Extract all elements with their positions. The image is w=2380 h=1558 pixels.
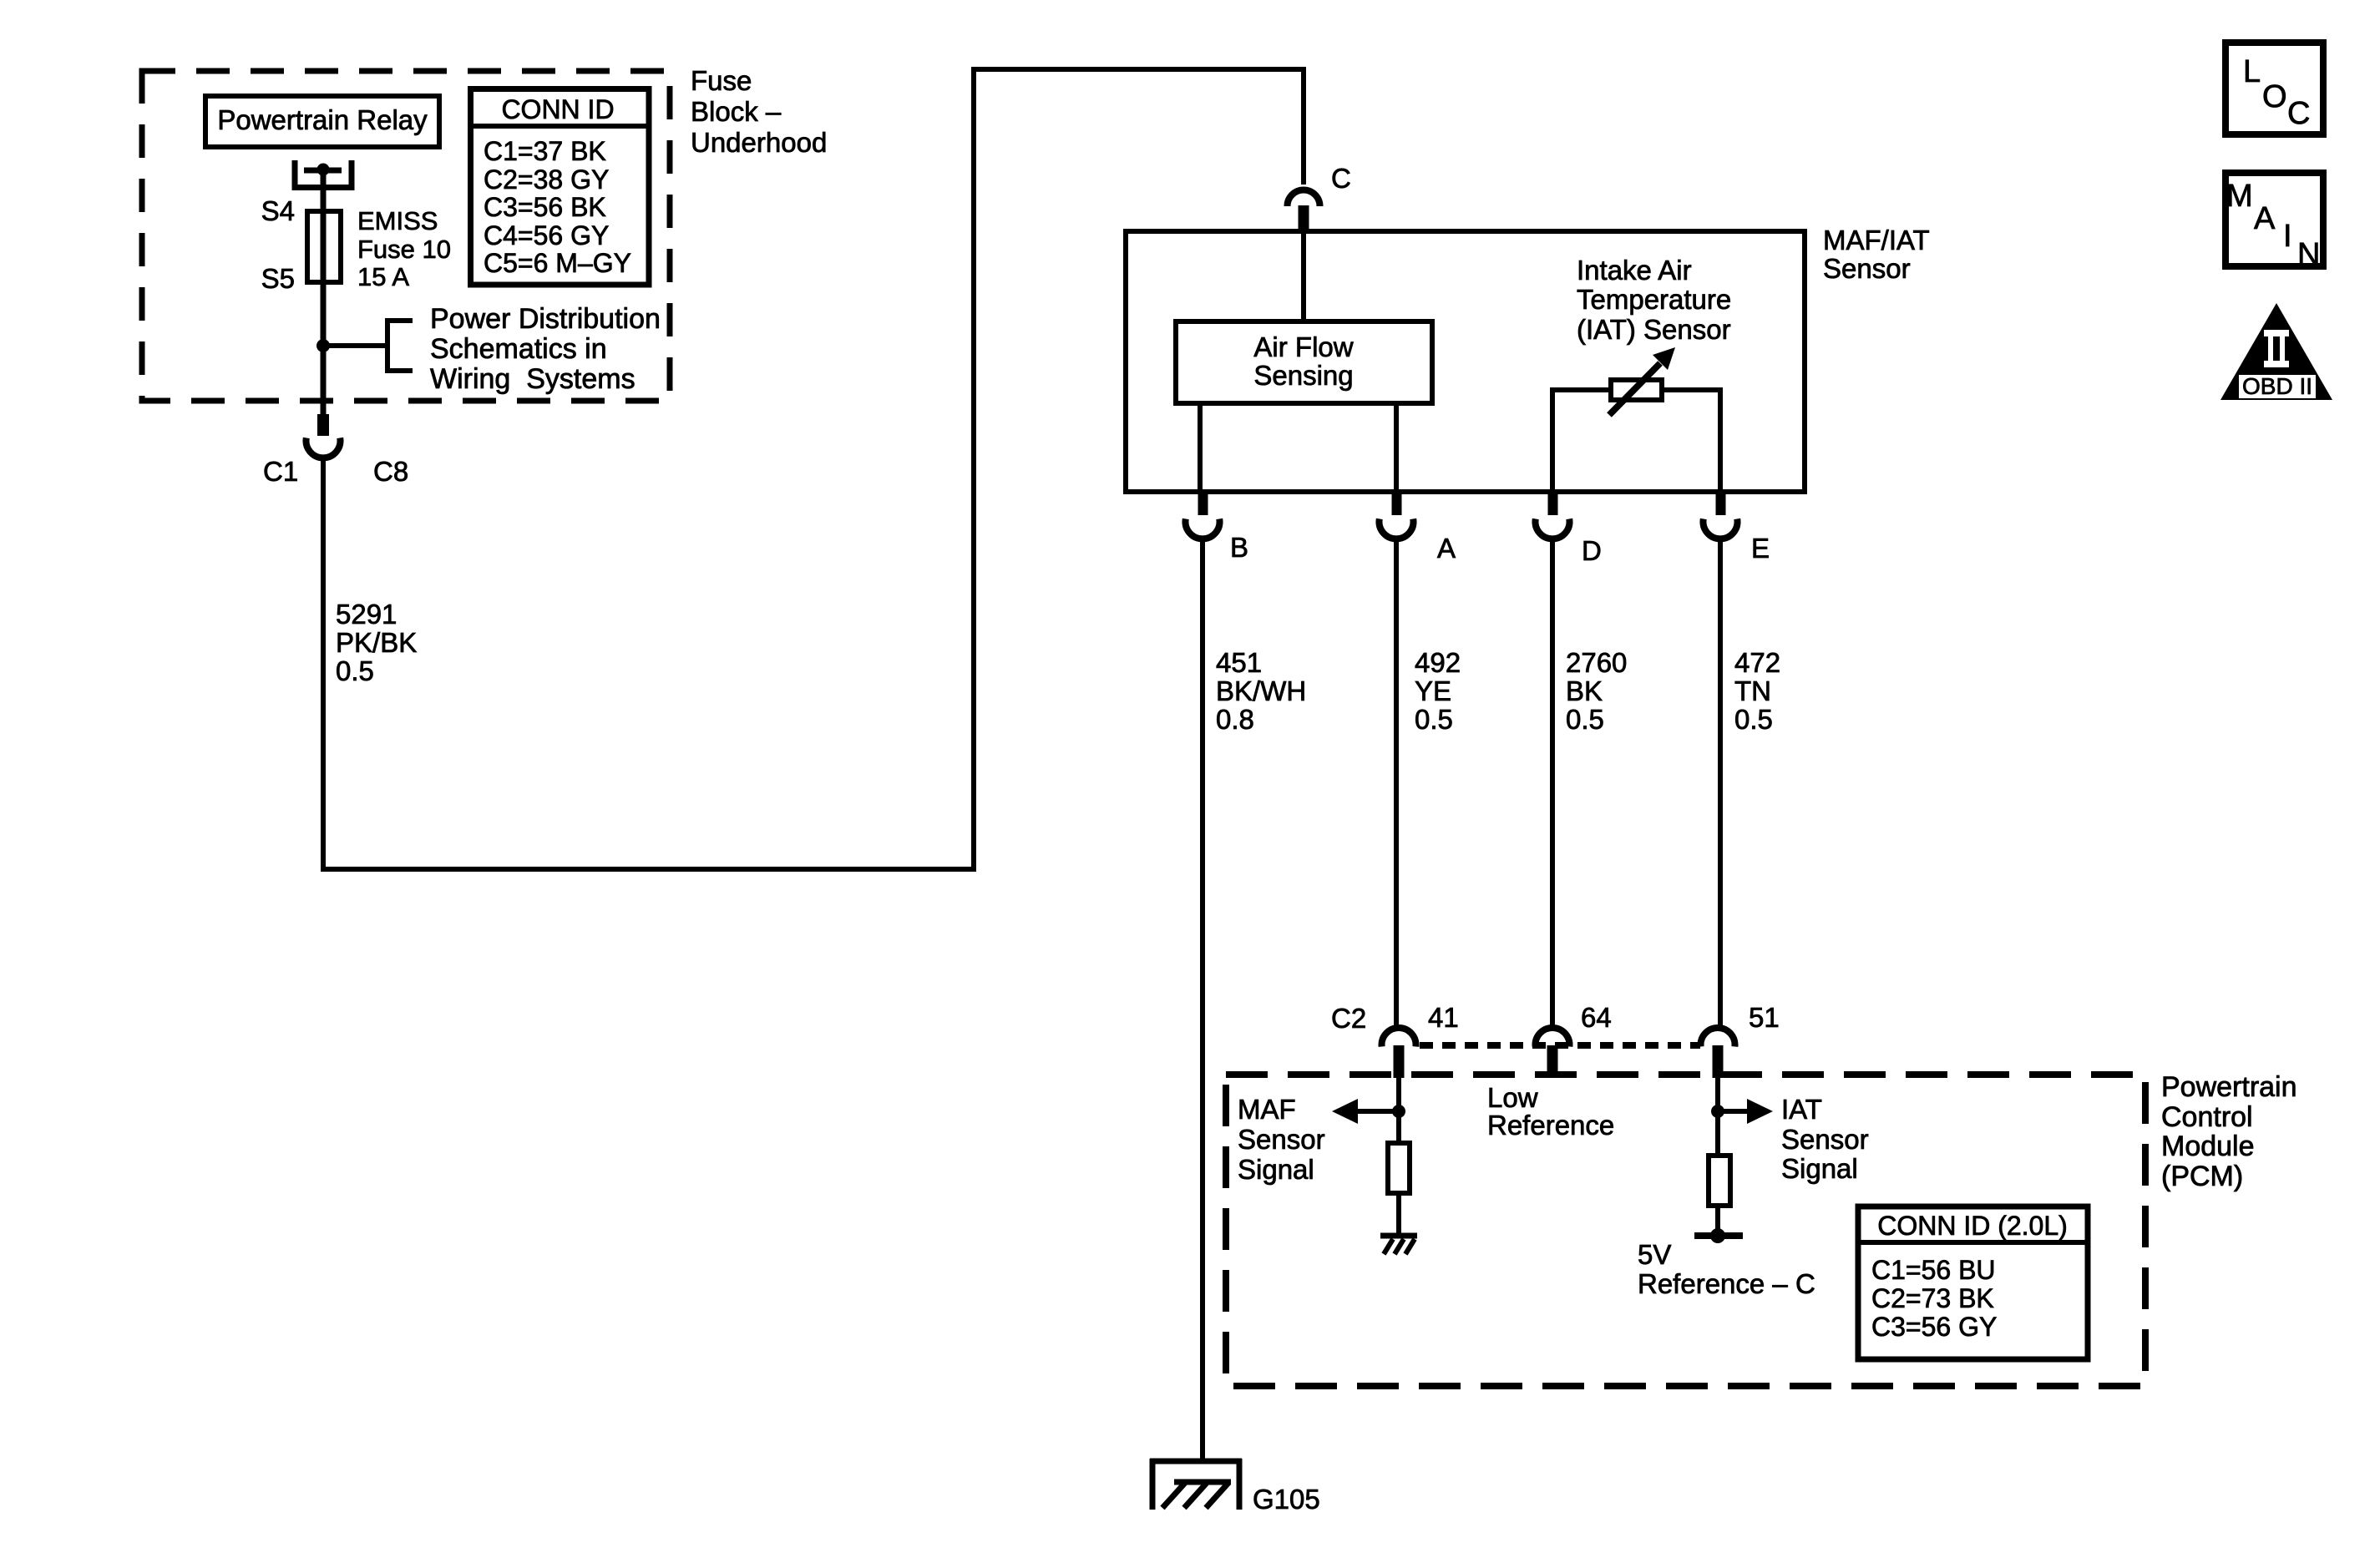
svg-text:0.8: 0.8 [1216,704,1254,735]
svg-text:C8: C8 [373,456,408,487]
svg-text:A: A [1437,533,1456,564]
label EMISS Fuse 10 15 A [357,206,451,291]
svg-text:C1: C1 [263,456,298,487]
connector A stub [1392,493,1402,515]
svg-text:Sensor: Sensor [1823,253,1911,284]
svg-text:C4=56 GY: C4=56 GY [484,220,609,250]
wire 41 into PCM [1396,1078,1401,1143]
svg-text:L: L [2243,54,2261,89]
wire junction to bracket [323,343,387,348]
wire 51 to IAT junction [1715,1078,1720,1156]
connector D stub [1548,493,1558,515]
svg-text:E: E [1751,533,1770,564]
svg-text:B: B [1230,532,1248,563]
connector E stub [1716,493,1726,515]
svg-text:MAF: MAF [1238,1094,1296,1125]
svg-text:BK/WH: BK/WH [1216,675,1306,706]
connector 41 arc [1382,1028,1416,1047]
svg-text:EMISS: EMISS [357,206,438,235]
svg-text:Signal: Signal [1238,1154,1314,1185]
connector E arc [1704,518,1738,539]
label 5291 PK/BK 0.5 [336,599,417,686]
svg-text:Module: Module [2161,1131,2255,1162]
svg-text:Fuse 10: Fuse 10 [357,235,451,264]
label 2760 BK 0.5 [1566,647,1627,735]
svg-text:S4: S4 [261,195,295,226]
svg-text:Temperature: Temperature [1577,284,1731,315]
MAF sensor signal arrow [1332,1099,1405,1124]
svg-text:Sensing: Sensing [1253,360,1353,391]
wire 451 BK/WH B to G105 [1200,539,1205,1461]
svg-text:I: I [2283,219,2292,254]
svg-text:C2=38 GY: C2=38 GY [484,164,609,195]
dashed connector body line C2 [1420,1042,1700,1049]
svg-text:Reference – C: Reference – C [1638,1268,1815,1299]
relay contact symbol [295,160,352,188]
svg-text:451: 451 [1216,647,1262,678]
wire resistor to ground [1396,1193,1401,1236]
svg-text:Low: Low [1487,1082,1538,1113]
connector C stub [1299,205,1309,229]
svg-text:2760: 2760 [1566,647,1627,678]
IAT thermistor body [1611,380,1662,400]
label 451 BK/WH 0.8 [1216,647,1306,735]
svg-text:MAF/IAT: MAF/IAT [1823,225,1930,255]
label Fuse Block - Underhood [691,65,827,158]
connector D arc [1535,518,1569,539]
svg-text:PK/BK: PK/BK [336,627,417,658]
label Power Distribution Schematics in Wiring Systems [430,303,661,395]
svg-text:Sensor: Sensor [1781,1124,1869,1155]
MAIN icon box [2226,173,2323,272]
svg-text:C5=6 M–GY: C5=6 M–GY [484,248,631,278]
svg-text:15 A: 15 A [357,262,409,291]
svg-text:A: A [2254,201,2276,236]
svg-text:Reference: Reference [1487,1110,1614,1141]
svg-text:S5: S5 [261,263,295,294]
svg-text:Power Distribution: Power Distribution [430,303,661,335]
ground G105 symbol [1150,1459,1242,1510]
connector B stub [1198,493,1208,515]
label 5V Reference - C [1638,1239,1815,1299]
5V reference bar [1694,1228,1743,1243]
svg-text:5291: 5291 [336,599,397,630]
connector 64 stub [1547,1045,1558,1078]
svg-text:O: O [2262,79,2287,114]
svg-text:IAT: IAT [1781,1094,1822,1125]
LOC icon box [2226,43,2323,134]
svg-text:Sensor: Sensor [1238,1124,1325,1155]
svg-text:C3=56 BK: C3=56 BK [484,192,606,222]
connector C1 C8 stub [317,414,329,436]
svg-text:0.5: 0.5 [336,655,374,686]
svg-text:Powertrain Relay: Powertrain Relay [217,104,428,135]
connector 64 arc [1536,1028,1570,1047]
svg-text:D: D [1582,535,1602,566]
svg-text:5V: 5V [1638,1239,1671,1270]
label MAF Sensor Signal [1238,1094,1325,1185]
wire air flow sensing pin A [1394,403,1399,489]
svg-text:C3=56 GY: C3=56 GY [1871,1312,1997,1342]
svg-text:0.5: 0.5 [1734,704,1773,735]
internal ground [1380,1236,1417,1254]
fuse block conn id table [468,89,649,286]
svg-text:Wiring Systems: Wiring Systems [430,363,636,395]
PCM conn id table [1858,1206,2088,1359]
svg-text:G105: G105 [1253,1484,1320,1515]
label MAF/IAT Sensor [1823,225,1930,284]
svg-text:CONN ID (2.0L): CONN ID (2.0L) [1877,1211,2068,1241]
svg-text:C: C [2287,96,2310,131]
label Intake Air Temperature (IAT) Sensor [1577,255,1731,345]
svg-text:Signal: Signal [1781,1153,1858,1184]
svg-text:41: 41 [1428,1002,1459,1033]
svg-text:N: N [2297,237,2320,272]
wire 2760 BK D to PCM 64 [1550,539,1555,1028]
svg-text:C: C [1331,163,1351,194]
svg-text:C2: C2 [1331,1003,1366,1034]
wire 492 YE A to PCM 41 [1394,539,1399,1028]
wire relay to fuse [321,169,327,417]
svg-text:51: 51 [1749,1002,1780,1033]
svg-text:Fuse: Fuse [691,65,752,96]
svg-text:0.5: 0.5 [1415,704,1453,735]
IAT sensor signal arrow [1711,1099,1773,1124]
connector 51 stub [1713,1045,1724,1078]
svg-text:Underhood: Underhood [691,127,827,158]
svg-text:CONN ID: CONN ID [501,94,614,124]
connector 51 arc [1701,1028,1735,1047]
wire air flow sensing pin B [1198,403,1203,489]
svg-text:TN: TN [1734,675,1771,706]
svg-text:(PCM): (PCM) [2161,1161,2243,1192]
svg-text:Control: Control [2161,1101,2253,1133]
svg-text:492: 492 [1415,647,1461,678]
reference bracket power distribution [387,321,413,371]
svg-text:Powertrain: Powertrain [2161,1071,2297,1103]
svg-text:BK: BK [1566,675,1603,706]
connector B arc [1185,518,1219,539]
label 472 TN 0.5 [1734,647,1780,735]
IAT sensor thermistor loop wires [1552,390,1720,492]
label Powertrain Control Module (PCM) [2161,1071,2297,1192]
wire 472 TN E to PCM 51 [1718,539,1723,1028]
connector C arc [1288,190,1320,207]
air flow sensing box [1176,321,1432,403]
PCM dashed box [1226,1075,2145,1386]
svg-text:Air Flow: Air Flow [1253,331,1353,362]
svg-text:64: 64 [1581,1002,1612,1033]
junction dot [316,339,330,352]
connector 41 stub [1394,1045,1405,1078]
IAT pull-up resistor [1709,1156,1730,1206]
svg-text:M: M [2226,179,2253,214]
wire resistor to 5V bar [1715,1206,1720,1236]
svg-text:Schematics in: Schematics in [430,333,607,365]
IAT thermistor arrow [1609,347,1675,415]
connector A arc [1379,518,1413,539]
label 492 YE 0.5 [1415,647,1461,735]
powertrain relay box K1 [205,96,439,147]
svg-text:OBD II: OBD II [2242,373,2312,399]
svg-text:C1=37 BK: C1=37 BK [484,136,606,166]
MAF input resistor [1388,1143,1410,1193]
svg-text:C1=56 BU: C1=56 BU [1871,1255,1996,1285]
OBD II triangle icon [2220,303,2332,400]
svg-text:C2=73 BK: C2=73 BK [1871,1283,1994,1313]
fuse EMISS Fuse 10 15A [307,211,341,282]
label Low Reference [1487,1082,1614,1141]
label IAT Sensor Signal [1781,1094,1869,1184]
fuse block underhood dashed box [142,71,670,401]
svg-text:YE: YE [1415,675,1451,706]
wire C to air flow sensing [1301,231,1306,321]
connector C1 C8 arc [306,438,341,458]
wire 5291 PK/BK run: down, right, up, right, down to C [323,69,1304,869]
MAF/IAT sensor box [1126,231,1805,492]
svg-text:0.5: 0.5 [1566,704,1604,735]
svg-text:(IAT) Sensor: (IAT) Sensor [1577,314,1731,345]
svg-text:Intake Air: Intake Air [1577,255,1692,286]
svg-text:472: 472 [1734,647,1780,678]
svg-text:Block –: Block – [691,96,782,127]
